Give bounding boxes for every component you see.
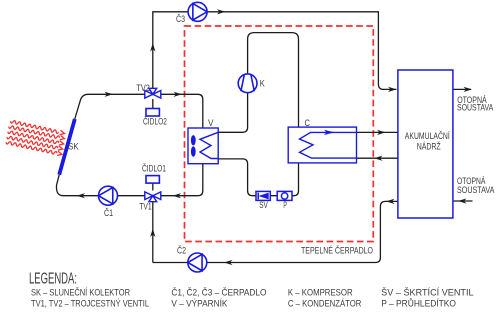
accumulation tank: [398, 70, 453, 218]
legend: [29, 271, 474, 309]
svg-text:SK: SK: [68, 142, 79, 152]
svg-text:ŠV: ŠV: [259, 200, 268, 210]
svg-text:ŠV – ŠKRTÍCÍ VENTIL: ŠV – ŠKRTÍCÍ VENTIL: [381, 287, 473, 297]
wire bottom run to tank bottom port: [153, 201, 398, 262]
three-way valve TV2: [145, 88, 161, 98]
wire refrigerant: evaporator top to compressor to condenser: [218, 33, 298, 133]
flow arrows: [77, 9, 473, 265]
wire TV2 up and top run to tank: [153, 12, 397, 90]
wire TV1 down: [152, 201, 154, 263]
wire condenser to tank top: [357, 131, 398, 133]
throttle valve ŠV: [256, 191, 270, 200]
svg-text:SOUSTAVA: SOUSTAVA: [457, 103, 493, 113]
svg-text:P: P: [283, 200, 287, 210]
svg-text:SK – SLUNEČNÍ KOLEKTOR: SK – SLUNEČNÍ KOLEKTOR: [31, 287, 130, 297]
wire evaporator bottom to TV1: [161, 164, 203, 196]
svg-text:TV2: TV2: [136, 83, 149, 93]
evaporator V box: [188, 128, 218, 164]
pipes: [56, 12, 472, 263]
svg-text:SOUSTAVA: SOUSTAVA: [457, 185, 494, 195]
wire tank right top outlet: [453, 88, 471, 90]
pump Č3: [188, 2, 207, 21]
svg-text:V – VÝPARNÍK: V – VÝPARNÍK: [171, 298, 227, 308]
svg-text:Č1: Č1: [104, 208, 113, 218]
svg-text:TV1: TV1: [139, 202, 151, 212]
wire tank right bottom inlet: [453, 200, 473, 202]
svg-text:AKUMULAČNÍ: AKUMULAČNÍ: [405, 131, 450, 141]
pump Č2: [188, 253, 207, 272]
sensor ČIDLO2: [146, 109, 159, 117]
compressor K: [238, 74, 257, 93]
wire ČIDLO1 to TV1: [152, 183, 154, 190]
svg-text:C – KONDENZÁTOR: C – KONDENZÁTOR: [288, 298, 362, 308]
svg-text:NÁDRŽ: NÁDRŽ: [417, 142, 441, 152]
solar collector SK: [59, 119, 75, 175]
condenser C box: [288, 127, 356, 163]
sight glass P: [277, 191, 292, 200]
svg-text:P – PRŮHLEDÍTKO: P – PRŮHLEDÍTKO: [381, 297, 456, 308]
svg-text:Č3: Č3: [176, 14, 185, 24]
three-way valve TV1: [145, 192, 161, 202]
sun rays toward collector: [6, 121, 64, 156]
wire tank to condenser bottom: [357, 157, 398, 159]
sensor ČIDLO1: [146, 176, 159, 184]
wire TV2 to evaporator top: [161, 94, 203, 128]
wire solar bottom: [56, 175, 144, 196]
svg-text:ČIDLO1: ČIDLO1: [142, 164, 166, 174]
svg-text:Č1, Č2, Č3 – ČERPADLO: Č1, Č2, Č3 – ČERPADLO: [171, 287, 266, 297]
svg-text:C: C: [305, 118, 311, 128]
svg-text:TEPELNÉ ČERPADLO: TEPELNÉ ČERPADLO: [301, 246, 373, 256]
svg-text:Č2: Č2: [177, 246, 186, 256]
svg-text:K: K: [260, 79, 265, 89]
heat pump dashed boundary: [185, 26, 374, 242]
svg-text:ČIDLO2: ČIDLO2: [143, 117, 167, 127]
svg-text:V: V: [208, 118, 214, 128]
svg-text:LEGENDA:: LEGENDA:: [29, 271, 77, 288]
wire solar top: [75, 94, 145, 119]
svg-text:K – KOMPRESOR: K – KOMPRESOR: [288, 287, 353, 297]
svg-text:TV1, TV2 – TROJCESTNÝ VENTIL: TV1, TV2 – TROJCESTNÝ VENTIL: [31, 298, 149, 308]
wire refrigerant: condenser bottom through ŠV and P to evaporator: [218, 159, 298, 196]
pump Č1: [99, 186, 118, 205]
wire TV2 to sensor ČIDLO2: [152, 99, 154, 109]
